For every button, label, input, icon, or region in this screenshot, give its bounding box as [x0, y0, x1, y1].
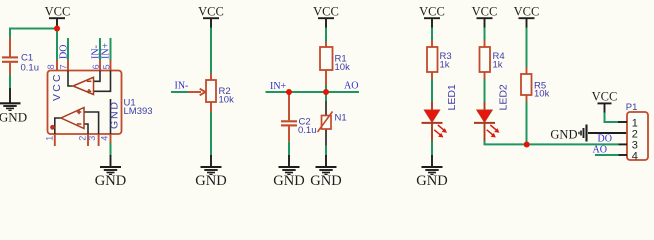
svg-text:1k: 1k [493, 60, 503, 71]
svg-text:VCC: VCC [45, 5, 71, 19]
svg-text:AO: AO [593, 144, 607, 155]
svg-text:2: 2 [78, 136, 88, 141]
svg-text:0.1u: 0.1u [298, 125, 317, 136]
svg-text:VCC: VCC [592, 89, 618, 103]
svg-text:GND: GND [550, 127, 577, 141]
svg-text:4: 4 [632, 151, 638, 163]
svg-text:IN+: IN+ [101, 42, 112, 59]
svg-text:VCC: VCC [419, 5, 445, 19]
svg-text:1: 1 [45, 136, 55, 141]
svg-text:3: 3 [87, 136, 97, 141]
svg-text:LM393: LM393 [124, 106, 153, 117]
svg-text:VCC: VCC [472, 5, 498, 19]
svg-text:VCC: VCC [313, 5, 339, 19]
svg-text:IN-: IN- [175, 80, 189, 91]
svg-text:0.1u: 0.1u [21, 62, 40, 73]
svg-text:2: 2 [632, 129, 638, 141]
svg-text:10k: 10k [335, 62, 351, 73]
svg-text:IN+: IN+ [270, 81, 287, 92]
svg-text:DO: DO [59, 45, 70, 59]
svg-text:10k: 10k [219, 95, 235, 106]
svg-text:VCC: VCC [198, 5, 224, 19]
svg-text:5: 5 [101, 64, 111, 69]
svg-text:10k: 10k [534, 89, 550, 100]
svg-text:AO: AO [344, 81, 358, 92]
svg-text:GND: GND [416, 173, 447, 189]
svg-text:7: 7 [59, 64, 69, 69]
svg-text:GND: GND [195, 173, 226, 189]
svg-text:GND: GND [0, 110, 27, 125]
svg-text:VCC: VCC [514, 5, 540, 19]
svg-text:GND: GND [310, 173, 341, 189]
svg-text:DO: DO [598, 133, 612, 144]
svg-text:LED2: LED2 [498, 84, 510, 110]
svg-text:GND: GND [273, 173, 304, 189]
svg-text:GND: GND [95, 173, 126, 189]
svg-text:P1: P1 [626, 102, 638, 113]
svg-text:8: 8 [46, 64, 56, 69]
svg-text:4: 4 [99, 136, 109, 141]
svg-text:6: 6 [91, 64, 101, 69]
svg-text:VCC: VCC [51, 72, 63, 101]
svg-text:N1: N1 [335, 113, 347, 124]
svg-text:LED1: LED1 [446, 84, 458, 110]
svg-text:GND: GND [109, 100, 121, 129]
svg-text:1k: 1k [440, 60, 450, 71]
